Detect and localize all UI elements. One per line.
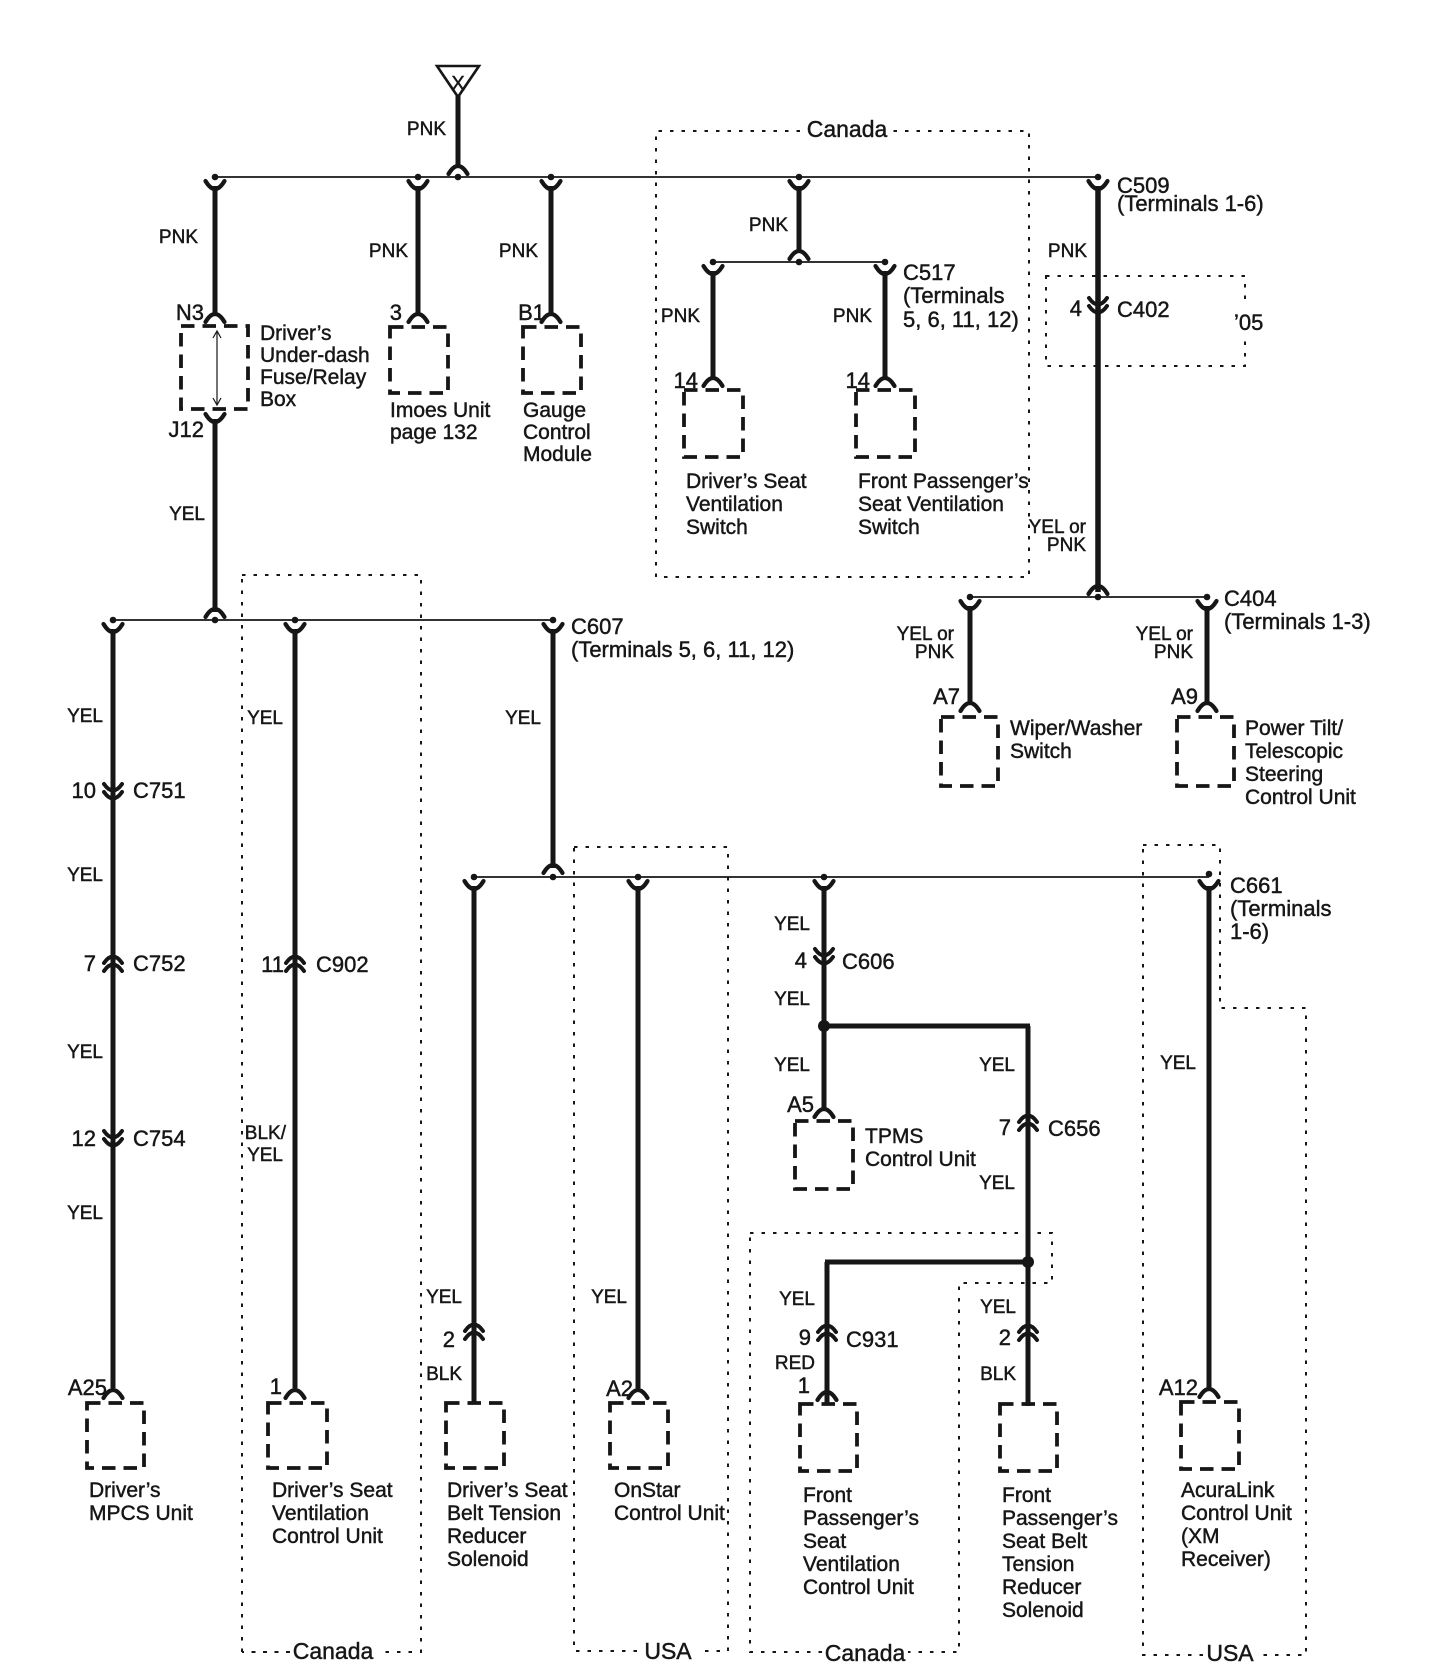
- svg-text:Driver’s: Driver’s: [89, 1479, 161, 1502]
- svg-text:PNK: PNK: [915, 642, 954, 663]
- svg-text:PNK: PNK: [369, 241, 408, 262]
- svg-text:C402: C402: [1117, 297, 1170, 322]
- svg-text:YEL: YEL: [247, 708, 283, 729]
- svg-text:7: 7: [999, 1115, 1011, 1140]
- svg-text:Canada: Canada: [825, 1640, 906, 1666]
- svg-text:Driver’s Seat: Driver’s Seat: [447, 1479, 568, 1502]
- svg-text:Wiper/Washer: Wiper/Washer: [1010, 717, 1142, 740]
- svg-text:USA: USA: [644, 1638, 692, 1664]
- svg-text:page 132: page 132: [390, 421, 478, 444]
- svg-text:11: 11: [261, 952, 284, 977]
- svg-text:Control Unit: Control Unit: [865, 1148, 976, 1171]
- svg-text:A2: A2: [606, 1376, 633, 1401]
- svg-text:BLK: BLK: [980, 1364, 1016, 1385]
- svg-text:YEL: YEL: [67, 1042, 103, 1063]
- svg-text:BLK/: BLK/: [245, 1123, 287, 1144]
- svg-text:A9: A9: [1171, 684, 1198, 709]
- svg-text:PNK: PNK: [159, 227, 198, 248]
- svg-text:10: 10: [72, 778, 96, 803]
- svg-text:YEL: YEL: [67, 706, 103, 727]
- svg-text:YEL: YEL: [67, 865, 103, 886]
- svg-text:5, 6, 11, 12): 5, 6, 11, 12): [903, 307, 1019, 332]
- svg-text:PNK: PNK: [661, 306, 700, 327]
- svg-text:Front Passenger’s: Front Passenger’s: [858, 470, 1029, 493]
- svg-text:Control Unit: Control Unit: [1181, 1502, 1292, 1525]
- svg-text:Front: Front: [803, 1484, 852, 1507]
- svg-text:Solenoid: Solenoid: [447, 1548, 529, 1571]
- svg-text:Driver’s: Driver’s: [260, 322, 332, 345]
- svg-text:B1: B1: [518, 300, 545, 325]
- svg-text:YEL: YEL: [979, 1173, 1015, 1194]
- svg-text:(Terminals 5, 6, 11, 12): (Terminals 5, 6, 11, 12): [571, 637, 794, 662]
- svg-text:Power Tilt/: Power Tilt/: [1245, 717, 1343, 740]
- svg-text:YEL: YEL: [505, 708, 541, 729]
- svg-text:C661: C661: [1230, 873, 1283, 898]
- svg-text:PNK: PNK: [499, 241, 538, 262]
- svg-text:C751: C751: [133, 778, 186, 803]
- svg-text:Fuse/Relay: Fuse/Relay: [260, 366, 367, 389]
- svg-text:Control Unit: Control Unit: [614, 1502, 725, 1525]
- svg-text:MPCS Unit: MPCS Unit: [89, 1502, 193, 1525]
- svg-text:A7: A7: [933, 684, 960, 709]
- svg-text:PNK: PNK: [749, 215, 788, 236]
- svg-text:’05: ’05: [1234, 310, 1263, 335]
- svg-text:12: 12: [72, 1126, 96, 1151]
- svg-text:Control Unit: Control Unit: [1245, 786, 1356, 809]
- svg-text:YEL: YEL: [67, 1203, 103, 1224]
- svg-text:Switch: Switch: [686, 516, 748, 539]
- svg-text:(Terminals 1-6): (Terminals 1-6): [1117, 191, 1264, 216]
- svg-text:C752: C752: [133, 951, 186, 976]
- svg-text:OnStar: OnStar: [614, 1479, 681, 1502]
- svg-text:Seat Belt: Seat Belt: [1002, 1530, 1087, 1553]
- svg-text:N3: N3: [176, 300, 204, 325]
- svg-text:(Terminals 1-3): (Terminals 1-3): [1224, 609, 1371, 634]
- svg-text:YEL: YEL: [980, 1297, 1016, 1318]
- svg-text:Seat: Seat: [803, 1530, 846, 1553]
- svg-text:(Terminals: (Terminals: [1230, 896, 1331, 921]
- svg-text:2: 2: [443, 1327, 455, 1352]
- svg-text:C931: C931: [846, 1327, 899, 1352]
- svg-text:C754: C754: [133, 1126, 186, 1151]
- svg-text:YEL: YEL: [247, 1145, 283, 1166]
- svg-text:Telescopic: Telescopic: [1245, 740, 1343, 763]
- svg-text:Reducer: Reducer: [447, 1525, 526, 1548]
- svg-text:3: 3: [390, 300, 402, 325]
- svg-text:YEL: YEL: [591, 1287, 627, 1308]
- svg-text:YEL: YEL: [774, 914, 810, 935]
- svg-text:Belt Tension: Belt Tension: [447, 1502, 561, 1525]
- svg-text:(XM: (XM: [1181, 1525, 1220, 1548]
- svg-text:Canada: Canada: [293, 1638, 374, 1664]
- svg-text:C902: C902: [316, 952, 369, 977]
- svg-text:Gauge: Gauge: [523, 399, 586, 422]
- svg-text:C607: C607: [571, 614, 624, 639]
- svg-text:Module: Module: [523, 443, 592, 466]
- svg-text:AcuraLink: AcuraLink: [1181, 1479, 1275, 1502]
- svg-text:4: 4: [1070, 296, 1082, 321]
- svg-text:Seat Ventilation: Seat Ventilation: [858, 493, 1004, 516]
- svg-text:PNK: PNK: [407, 119, 446, 140]
- svg-text:YEL: YEL: [779, 1289, 815, 1310]
- svg-text:Passenger’s: Passenger’s: [803, 1507, 919, 1530]
- svg-text:A25: A25: [68, 1375, 107, 1400]
- svg-text:A12: A12: [1159, 1375, 1198, 1400]
- svg-text:Passenger’s: Passenger’s: [1002, 1507, 1118, 1530]
- svg-text:Control Unit: Control Unit: [272, 1525, 383, 1548]
- svg-text:Control: Control: [523, 421, 591, 444]
- svg-text:Front: Front: [1002, 1484, 1051, 1507]
- svg-text:Reducer: Reducer: [1002, 1576, 1081, 1599]
- svg-text:C404: C404: [1224, 586, 1277, 611]
- svg-text:7: 7: [84, 951, 96, 976]
- svg-text:Switch: Switch: [1010, 740, 1072, 763]
- svg-text:Ventilation: Ventilation: [272, 1502, 369, 1525]
- svg-text:Control Unit: Control Unit: [803, 1576, 914, 1599]
- svg-text:YEL: YEL: [426, 1287, 462, 1308]
- svg-text:9: 9: [799, 1325, 811, 1350]
- svg-text:Switch: Switch: [858, 516, 920, 539]
- svg-text:4: 4: [795, 948, 807, 973]
- svg-text:X: X: [451, 73, 464, 95]
- svg-text:Canada: Canada: [807, 116, 888, 142]
- svg-text:Ventilation: Ventilation: [686, 493, 783, 516]
- svg-text:Under-dash: Under-dash: [260, 344, 370, 367]
- svg-text:YEL: YEL: [979, 1055, 1015, 1076]
- svg-text:2: 2: [999, 1325, 1011, 1350]
- svg-text:Ventilation: Ventilation: [803, 1553, 900, 1576]
- svg-text:YEL: YEL: [774, 989, 810, 1010]
- svg-text:A5: A5: [787, 1092, 814, 1117]
- svg-text:Driver’s Seat: Driver’s Seat: [686, 470, 807, 493]
- svg-text:C517: C517: [903, 260, 956, 285]
- svg-text:1-6): 1-6): [1230, 919, 1269, 944]
- svg-text:J12: J12: [169, 417, 204, 442]
- svg-text:Box: Box: [260, 388, 297, 411]
- svg-text:PNK: PNK: [1154, 642, 1193, 663]
- svg-text:Steering: Steering: [1245, 763, 1323, 786]
- svg-text:Tension: Tension: [1002, 1553, 1074, 1576]
- svg-text:TPMS: TPMS: [865, 1125, 923, 1148]
- svg-text:C606: C606: [842, 949, 895, 974]
- svg-text:Driver’s Seat: Driver’s Seat: [272, 1479, 393, 1502]
- svg-text:(Terminals: (Terminals: [903, 283, 1004, 308]
- svg-text:1: 1: [798, 1373, 810, 1398]
- svg-text:PNK: PNK: [833, 306, 872, 327]
- svg-text:YEL: YEL: [774, 1055, 810, 1076]
- svg-text:PNK: PNK: [1048, 241, 1087, 262]
- svg-text:BLK: BLK: [426, 1364, 462, 1385]
- svg-text:Imoes Unit: Imoes Unit: [390, 399, 491, 422]
- svg-text:C656: C656: [1048, 1116, 1101, 1141]
- svg-text:RED: RED: [775, 1353, 815, 1374]
- svg-text:Receiver): Receiver): [1181, 1548, 1271, 1571]
- svg-text:1: 1: [270, 1374, 282, 1399]
- svg-text:YEL: YEL: [1160, 1053, 1196, 1074]
- svg-text:Solenoid: Solenoid: [1002, 1599, 1084, 1622]
- svg-text:USA: USA: [1206, 1640, 1254, 1666]
- svg-text:YEL: YEL: [169, 504, 205, 525]
- svg-text:PNK: PNK: [1047, 535, 1086, 556]
